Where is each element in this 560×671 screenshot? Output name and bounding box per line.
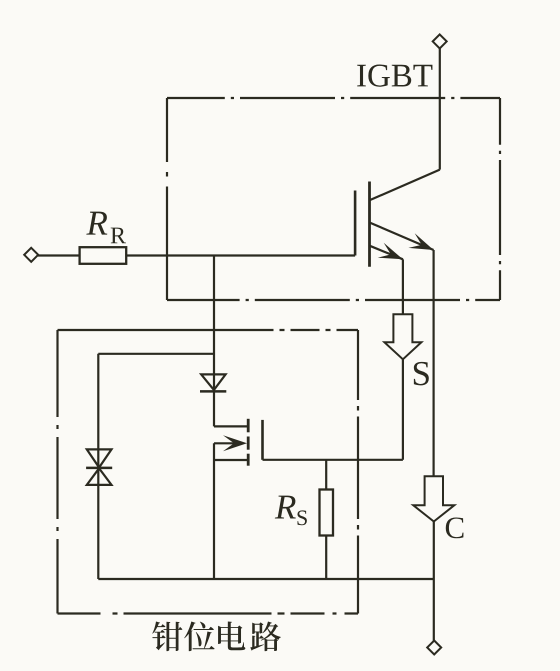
IGBT emitter diagonal to main emitter wire xyxy=(370,223,434,251)
wire: resistor RR to IGBT gate xyxy=(126,254,355,256)
zener ZD top triangle xyxy=(87,449,112,467)
diode D1 triangle xyxy=(201,374,225,390)
label 钳位电路 (clamp circuit) xyxy=(152,621,281,651)
dash-dot box: IGBT module boundary xyxy=(167,98,500,300)
label IGBT xyxy=(86,65,463,539)
wire: inner loop top xyxy=(98,353,214,355)
MOSFET Q2 gate bar xyxy=(261,420,264,460)
terminal top (collector lead-in diamond) xyxy=(433,34,447,48)
label RS xyxy=(275,496,296,519)
glyph 路 xyxy=(250,621,281,651)
hollow arrow S (sense current) xyxy=(384,314,421,359)
wire: main emitter down to C arrow xyxy=(433,250,435,476)
resistor RS body xyxy=(320,490,334,536)
resistor RR body xyxy=(80,247,127,264)
MOSFET Q2 source lead xyxy=(214,459,247,461)
MOSFET Q2 body arrowhead xyxy=(223,435,247,451)
wire: left terminal to resistor RR xyxy=(38,254,80,256)
wire: sense emitter down to S arrow xyxy=(402,259,404,314)
hollow arrow C (collector/emitter current) xyxy=(413,476,454,521)
IGBT sense emitter diagonal xyxy=(370,246,403,260)
wire: clamp vertical from MOSFET down to bottom rail xyxy=(213,443,215,579)
wire: inner loop left vertical xyxy=(97,354,99,579)
zener ZD middle bar xyxy=(86,467,112,470)
label RR xyxy=(86,212,107,235)
glyph 位 xyxy=(184,622,214,652)
wire: clamp vertical from gate line down to diode xyxy=(213,256,215,427)
glyph 电 xyxy=(218,621,245,650)
wire: bottom emitter rail xyxy=(98,578,434,580)
terminal bottom (emitter lead-out diamond) xyxy=(427,641,441,655)
terminal left (gate lead-in diamond) xyxy=(24,248,38,262)
zener ZD bottom triangle xyxy=(87,468,112,485)
MOSFET Q2 body lead xyxy=(214,442,240,444)
label C xyxy=(446,517,464,538)
wire: collector diagonal into IGBT bar xyxy=(370,170,440,201)
arrowhead on sense emitter xyxy=(378,243,403,259)
glyph 钳 xyxy=(152,621,182,651)
diode D1 cathode bar xyxy=(200,390,226,393)
wire: MOSFET gate to sense wire xyxy=(263,459,403,461)
dash-dot box: clamp circuit boundary xyxy=(58,330,359,614)
wire: RS bottom stub xyxy=(325,536,327,580)
label S xyxy=(414,362,429,386)
wire: S arrow to MOSFET gate line xyxy=(402,359,404,460)
MOSFET Q2 channel bar (dashed) xyxy=(247,419,250,466)
wire: RS top stub xyxy=(325,460,327,490)
MOSFET Q2 drain lead xyxy=(214,425,247,427)
wire: C arrow to bottom terminal xyxy=(433,522,435,641)
wire: top terminal to collector corner xyxy=(439,48,441,169)
IGBT Q1 body bar xyxy=(368,182,371,267)
arrowhead on main emitter xyxy=(408,233,433,250)
IGBT Q1 gate bar xyxy=(354,191,357,256)
